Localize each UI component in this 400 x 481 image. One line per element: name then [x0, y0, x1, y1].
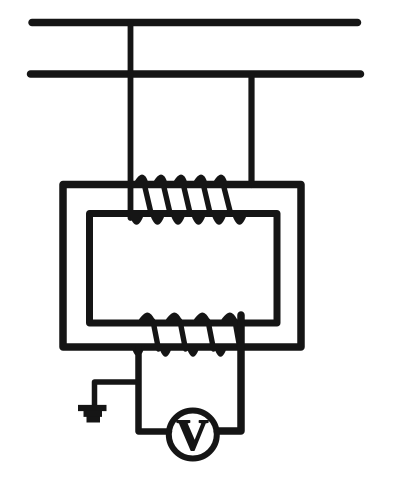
transformer core inner rectangle [90, 214, 278, 324]
primary winding (top) [130, 175, 247, 225]
ground [78, 408, 107, 419]
wire ground branch [95, 382, 139, 405]
wire bus line 1 (top) [32, 19, 358, 27]
wire secondary left lead down to voltmeter [139, 347, 170, 432]
wire drop from bus 2 to core top [248, 74, 254, 185]
wire secondary right lead down to voltmeter [217, 315, 241, 431]
transformer core outer rectangle [63, 185, 301, 348]
voltmeter V [169, 411, 217, 459]
wire bus line 2 [31, 70, 361, 78]
secondary winding (bottom) [131, 313, 238, 357]
wire drop from bus 1 to primary winding [128, 22, 134, 218]
